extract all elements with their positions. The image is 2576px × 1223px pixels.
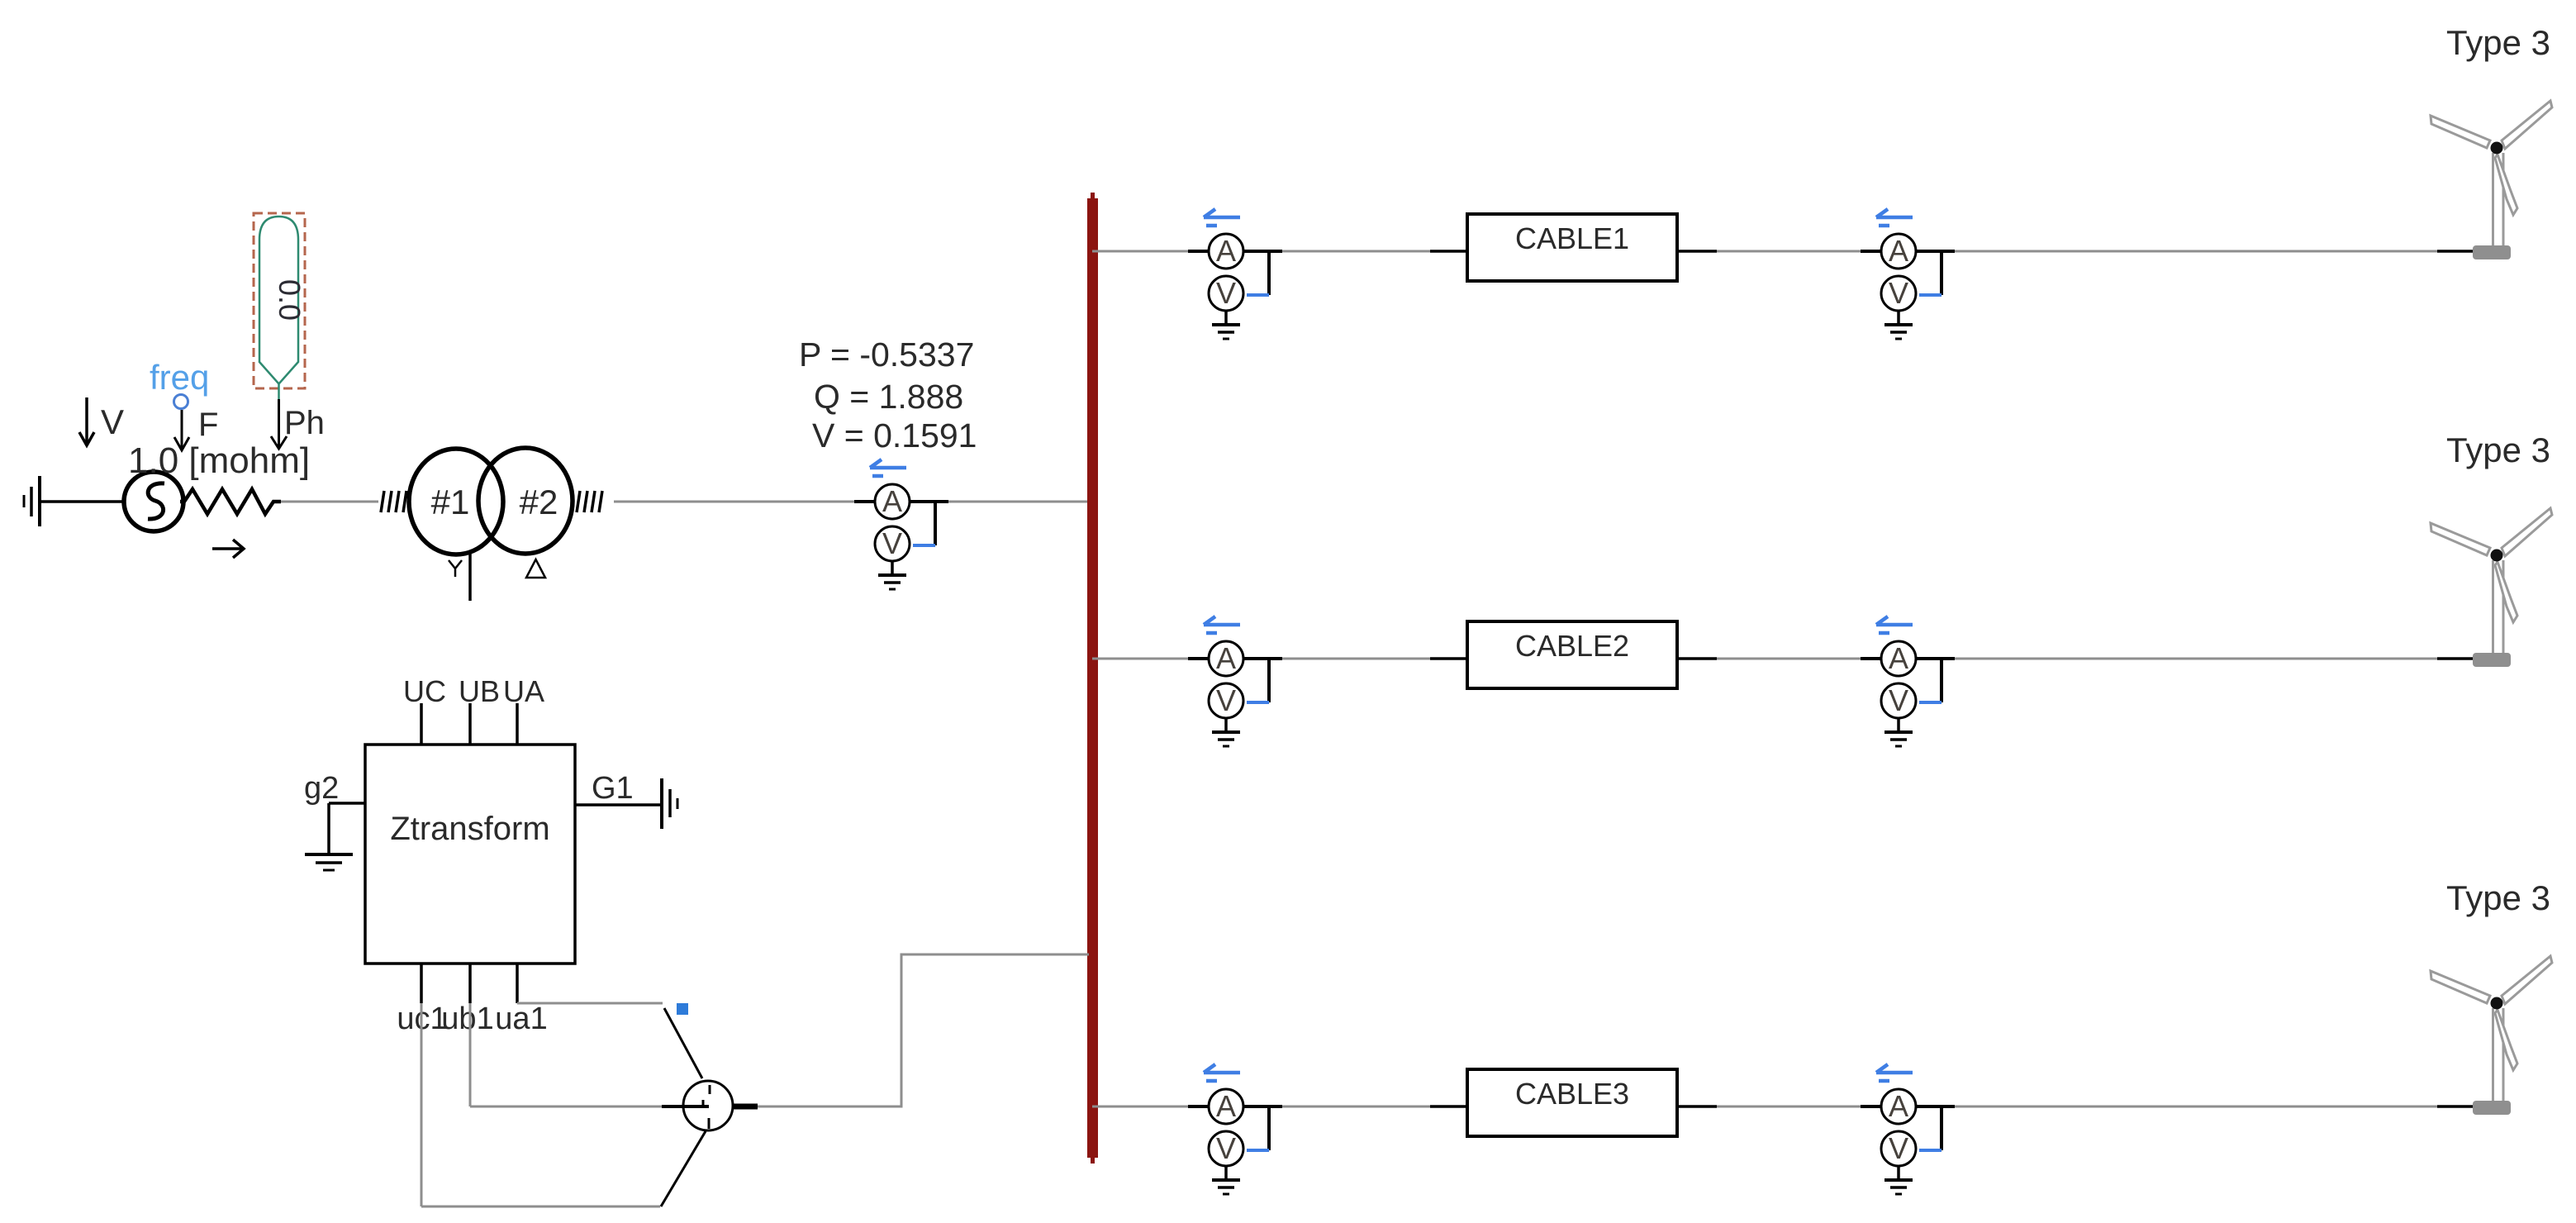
wire ua1 to selector: [517, 1002, 663, 1005]
current direction arrow (branch 3 bus side): [1204, 1064, 1240, 1081]
wire: resistor to transformer: [281, 501, 378, 503]
wire stub left of ammeter (main bus feed): [854, 500, 875, 503]
ground under voltmeter (branch 3 bus side): [1212, 1166, 1240, 1194]
svg-text:V: V: [1216, 1131, 1236, 1165]
wind turbine T1 (branch 1): [2431, 101, 2552, 248]
ammeter A (branch 3 bus side): [1209, 1089, 1243, 1124]
svg-text:A: A: [1216, 641, 1236, 675]
svg-text:V: V: [1889, 683, 1908, 717]
svg-text:V: V: [1216, 683, 1236, 717]
selector switch dial: [683, 1081, 733, 1130]
ammeter A (branch 2 turbine side): [1881, 641, 1916, 676]
pin G1 wire: [575, 803, 661, 807]
ammeter A (branch 1 turbine side): [1881, 234, 1916, 269]
component block Ztransform: [365, 745, 575, 964]
resistor 1.0 mohm: [180, 489, 281, 514]
svg-text:CABLE2: CABLE2: [1515, 629, 1629, 663]
svg-text:g2: g2: [304, 771, 339, 806]
bus bar BUS1: [1087, 193, 1098, 1164]
selector switch blue handle: [677, 1003, 688, 1015]
voltmeter connector wire (branch 1 turbine side): [1940, 251, 1943, 295]
ground under voltmeter (branch 2 turbine side): [1884, 718, 1913, 746]
wire: bus to branch 3 ammeter: [1092, 1106, 1190, 1108]
cable component CABLE2: [1467, 621, 1677, 688]
svg-text:ua1: ua1: [495, 1002, 547, 1036]
svg-text:V: V: [882, 526, 902, 560]
voltmeter blue lead (branch 1 bus side): [1247, 293, 1269, 297]
wire: branch 1 meters to wind turbine: [1955, 250, 2437, 253]
wire: selector output to bus: [758, 954, 1089, 1108]
voltmeter blue lead (branch 1 turbine side): [1919, 293, 1942, 297]
pin ua1: [516, 964, 519, 1003]
svg-text:A: A: [1216, 234, 1236, 268]
transformer T1 primary winding #1: [409, 449, 503, 554]
voltmeter V (branch 3 turbine side): [1881, 1131, 1916, 1166]
current direction arrow (branch 3 turbine side): [1876, 1064, 1913, 1081]
wire stub right of ammeter (branch 1 bus side): [1243, 250, 1282, 253]
wire: bus to branch 2 ammeter: [1092, 658, 1190, 660]
voltmeter blue lead (branch 2 bus side): [1247, 701, 1269, 704]
voltmeter connector wire (branch 2 bus side): [1267, 659, 1271, 702]
wire stub left of ammeter (branch 2 bus side): [1188, 657, 1209, 660]
wire stub right of ammeter (branch 3 bus side): [1243, 1105, 1282, 1108]
svg-text:UB: UB: [459, 674, 500, 708]
ammeter A (branch 1 bus side): [1209, 234, 1243, 269]
wire stub right of ammeter (branch 3 turbine side): [1916, 1105, 1955, 1108]
slider output stem: [278, 383, 280, 399]
current direction arrow (main bus feed): [870, 459, 906, 476]
svg-text:V: V: [1216, 276, 1236, 310]
selector switch output stub: [732, 1104, 758, 1110]
svg-text:A: A: [1889, 1089, 1908, 1123]
wire: branch 3 meters to wind turbine: [1955, 1106, 2437, 1108]
svg-text:V: V: [1889, 1131, 1908, 1165]
ground under voltmeter (main bus feed): [878, 561, 906, 589]
wire: branch 3 meters to CABLE3: [1282, 1106, 1430, 1108]
pin uc1: [420, 964, 423, 1003]
svg-text:A: A: [882, 484, 902, 518]
wire stub left of ammeter (branch 1 turbine side): [1861, 250, 1881, 253]
svg-text:CABLE3: CABLE3: [1515, 1077, 1629, 1111]
voltage source SRC: [124, 472, 183, 531]
voltmeter connector wire (branch 1 bus side): [1267, 251, 1271, 295]
ground under voltmeter (branch 3 turbine side): [1884, 1166, 1913, 1194]
delta symbol (secondary): [526, 559, 545, 578]
wire: branch 1 meters to CABLE1: [1282, 250, 1430, 253]
transformer neutral stub: [468, 553, 472, 601]
voltmeter V (branch 3 bus side): [1209, 1131, 1243, 1166]
wire stub right of ammeter (branch 1 turbine side): [1916, 250, 1955, 253]
ground under voltmeter (branch 2 bus side): [1212, 718, 1240, 746]
cable component CABLE1: [1467, 214, 1677, 281]
pin g2 wire: [329, 803, 365, 853]
svg-text:Q = 1.888: Q = 1.888: [814, 378, 963, 416]
wire stub right of ammeter (branch 2 turbine side): [1916, 657, 1955, 660]
selector switch middle input: [662, 1100, 709, 1106]
svg-text:CABLE1: CABLE1: [1515, 221, 1629, 255]
svg-text:G1: G1: [592, 771, 634, 806]
svg-text:A: A: [1889, 234, 1908, 268]
svg-text:Ztransform: Ztransform: [390, 811, 549, 847]
cable component CABLE3: [1467, 1069, 1677, 1136]
current direction arrow (branch 1 bus side): [1204, 209, 1240, 226]
current direction arrow (branch 2 turbine side): [1876, 616, 1913, 633]
voltmeter V (branch 1 turbine side): [1881, 276, 1916, 311]
svg-text:V = 0.1591: V = 0.1591: [812, 416, 977, 454]
svg-text:A: A: [1889, 641, 1908, 675]
ground under voltmeter (branch 1 bus side): [1212, 311, 1240, 339]
svg-text:Type 3: Type 3: [2446, 878, 2550, 917]
selector switch arm (lower input): [661, 1131, 706, 1206]
slider control pointer 0.0: [259, 217, 307, 384]
svg-text:V: V: [101, 402, 124, 441]
ammeter A (branch 3 turbine side): [1881, 1089, 1916, 1124]
label V with down arrow: [79, 397, 124, 445]
wire: branch 2 meters to CABLE2: [1282, 658, 1430, 660]
ground (source side, rotated): [24, 476, 40, 526]
Ph input arrow: [271, 399, 325, 449]
transformer T1 secondary winding #2: [478, 448, 573, 554]
current direction arrow (branch 1 turbine side): [1876, 209, 1913, 226]
voltmeter connector wire (branch 3 turbine side): [1940, 1106, 1943, 1150]
voltmeter blue lead (branch 3 bus side): [1247, 1149, 1269, 1152]
svg-text:F: F: [198, 407, 218, 443]
wire: branch 2 meters to wind turbine: [1955, 658, 2437, 660]
wire: ground to source: [41, 500, 126, 503]
voltmeter blue lead (main bus feed): [913, 544, 935, 547]
wire: bus to branch 1 ammeter: [1092, 250, 1190, 253]
voltmeter V (branch 2 bus side): [1209, 683, 1243, 718]
transformer T1 winding ticks (primary): [381, 491, 406, 512]
transformer T1 winding ticks (secondary): [577, 491, 602, 512]
svg-text:UC: UC: [403, 674, 446, 708]
ground under g2: [305, 854, 353, 870]
wire stub left of ammeter (branch 1 bus side): [1188, 250, 1209, 253]
current direction arrow (branch 2 bus side): [1204, 616, 1240, 633]
pin UB: [468, 703, 472, 745]
wire stub left of ammeter (branch 2 turbine side): [1861, 657, 1881, 660]
svg-text:A: A: [1216, 1089, 1236, 1123]
svg-text:Type 3: Type 3: [2446, 23, 2550, 62]
svg-text:Ph: Ph: [284, 405, 325, 441]
pin ub1: [468, 964, 472, 1003]
wire stub right of ammeter (branch 2 bus side): [1243, 657, 1282, 660]
F input arrow: [174, 407, 218, 450]
wire: CABLE2 to turbine-side meters: [1677, 657, 1717, 660]
voltmeter connector wire (branch 2 turbine side): [1940, 659, 1943, 702]
wire: main meters to bus: [948, 501, 1091, 503]
wye symbol (primary): [449, 560, 462, 577]
pin UA: [516, 703, 519, 745]
slider control (0.0) selection box: [254, 213, 305, 388]
svg-text:ub1: ub1: [441, 1002, 493, 1036]
svg-text:P = -0.5337: P = -0.5337: [799, 335, 974, 374]
voltmeter blue lead (branch 2 turbine side): [1919, 701, 1942, 704]
wire: transformer to main meters: [614, 501, 856, 503]
freq probe connection circle: [174, 395, 188, 409]
voltmeter V (main bus feed): [875, 526, 910, 561]
voltmeter connector wire (branch 3 bus side): [1267, 1106, 1271, 1150]
svg-text:V: V: [1889, 276, 1908, 310]
wire: CABLE1 to turbine-side meters: [1677, 250, 1717, 253]
wire stub left of ammeter (branch 3 turbine side): [1861, 1105, 1881, 1108]
pin UC: [420, 703, 423, 745]
svg-text:0.0: 0.0: [273, 279, 307, 321]
selector switch arm (upper input): [664, 1008, 702, 1078]
wire uc1 to selector: [421, 1003, 660, 1206]
svg-text:#1: #1: [431, 483, 470, 521]
voltmeter connector wire (main bus feed): [934, 502, 937, 545]
svg-text:#2: #2: [520, 483, 558, 521]
svg-text:UA: UA: [503, 674, 544, 708]
current direction arrow under resistor: [212, 540, 244, 558]
ground at G1 (rotated): [662, 778, 677, 829]
voltmeter V (branch 1 bus side): [1209, 276, 1243, 311]
ground under voltmeter (branch 1 turbine side): [1884, 311, 1913, 339]
ammeter A (main bus feed): [875, 484, 910, 519]
svg-text:Type 3: Type 3: [2446, 431, 2550, 469]
wire stub left of ammeter (branch 3 bus side): [1188, 1105, 1209, 1108]
wire: CABLE3 to turbine-side meters: [1677, 1105, 1717, 1108]
voltmeter blue lead (branch 3 turbine side): [1919, 1149, 1942, 1152]
measurement labels P Q V: [799, 335, 977, 454]
voltmeter V (branch 2 turbine side): [1881, 683, 1916, 718]
svg-text:freq: freq: [150, 358, 209, 397]
wind turbine T3 (branch 3): [2431, 956, 2552, 1103]
wire ub1 to selector: [470, 1003, 662, 1106]
ammeter A (branch 2 bus side): [1209, 641, 1243, 676]
wind turbine T2 (branch 2): [2431, 508, 2552, 655]
wire stub right of ammeter (main bus feed): [910, 500, 948, 503]
svg-text:1.0 [mohm]: 1.0 [mohm]: [128, 440, 310, 481]
